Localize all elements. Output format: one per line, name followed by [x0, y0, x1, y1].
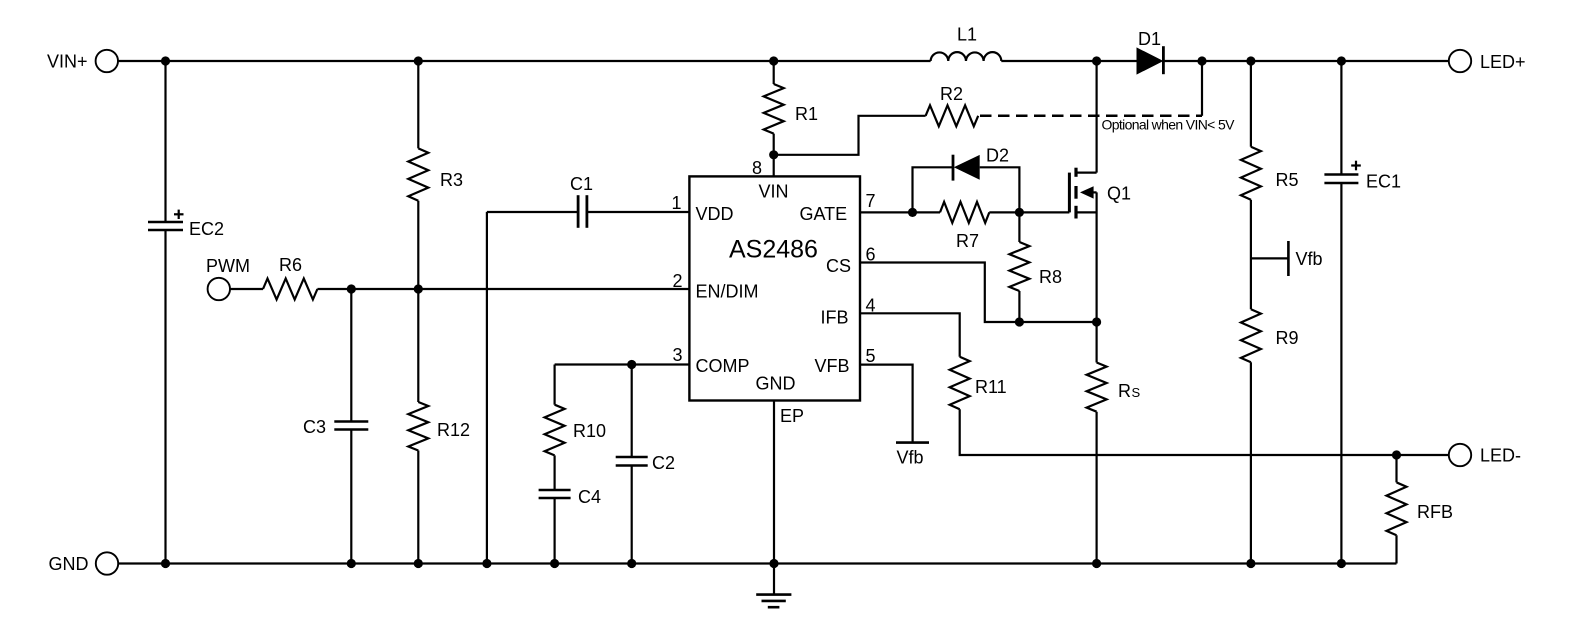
junction R1 top at VIN+ rail — [769, 56, 778, 65]
transistor Q1 — [1095, 61, 1097, 173]
wire IFB pin 4 — [859, 313, 959, 356]
resistor R6 — [263, 279, 317, 300]
wire Rs upper lead — [1095, 322, 1097, 363]
wire RFB lower lead — [1395, 535, 1397, 563]
svg-text:C3: C3 — [303, 417, 326, 437]
resistor R12 — [408, 402, 428, 451]
junction R5 top at LED+ rail — [1246, 56, 1255, 65]
svg-text:Optional when VIN< 5V: Optional when VIN< 5V — [1102, 117, 1236, 133]
terminal LED- — [1449, 444, 1471, 466]
wire EC2 lower lead — [164, 230, 166, 564]
svg-text:Q1: Q1 — [1107, 184, 1131, 204]
svg-text:RFB: RFB — [1417, 502, 1453, 522]
svg-text:R11: R11 — [975, 377, 1007, 397]
svg-text:L1: L1 — [957, 25, 977, 45]
wire C1 to VDD pin 1 — [587, 211, 690, 213]
resistor R10 — [545, 405, 565, 456]
resistor R3 — [408, 148, 428, 200]
wire C3 upper lead — [350, 289, 352, 422]
wire C1 left lead — [487, 211, 578, 213]
junction D2 cathode R8 on GATE net — [1015, 208, 1024, 217]
wire R5 to R9 — [1250, 200, 1252, 310]
diode D2 loop wire — [913, 167, 1020, 212]
junction Rs bottom at GND rail — [1092, 559, 1101, 568]
wire C2 upper lead — [631, 365, 633, 458]
svg-text:C2: C2 — [652, 453, 675, 473]
diode D2 — [954, 155, 980, 180]
wire C4 lower lead — [553, 498, 555, 564]
svg-text:AS2486: AS2486 — [729, 236, 818, 264]
junction C3 tap on EN/DIM net — [347, 284, 356, 293]
svg-text:R: R — [1118, 381, 1131, 401]
junction Q1 source on CS net — [1092, 317, 1101, 326]
svg-text:VDD: VDD — [696, 204, 734, 224]
svg-text:EC1: EC1 — [1366, 172, 1401, 192]
wire R10 to C4 — [553, 455, 555, 490]
wire COMP pin 3 — [555, 363, 690, 365]
junction R1 bottom pin 8 node — [769, 150, 778, 159]
wire VFB pin 5 — [859, 365, 912, 443]
wire Rs lower lead — [1095, 412, 1097, 564]
resistor R7 — [940, 202, 989, 223]
wire R1 upper lead — [773, 61, 775, 84]
junction R3 top at VIN+ rail — [414, 56, 423, 65]
resistor R1 — [764, 84, 784, 134]
wire R6 to EN/DIM pin 2 — [317, 288, 689, 290]
resistor R5 — [1241, 147, 1261, 200]
wire EC1 lower lead — [1340, 183, 1342, 564]
svg-text:R7: R7 — [956, 231, 979, 251]
junction R3-R12 tap on EN/DIM net — [414, 284, 423, 293]
svg-text:3: 3 — [673, 345, 683, 365]
svg-text:LED-: LED- — [1480, 446, 1521, 466]
svg-text:LED+: LED+ — [1480, 52, 1526, 72]
svg-text:5: 5 — [866, 346, 876, 366]
IC U1 AS2486 body — [689, 176, 860, 400]
svg-text:R8: R8 — [1039, 267, 1062, 287]
wire pin8 to R2 — [774, 116, 926, 155]
resistor R11 — [950, 357, 970, 410]
junction C3 bottom at GND rail — [347, 559, 356, 568]
junction R8 bottom on CS net — [1015, 317, 1024, 326]
junction C2 tap on COMP net — [627, 360, 636, 369]
svg-text:R3: R3 — [440, 170, 463, 190]
wire R10 upper lead — [553, 365, 555, 405]
capacitor C1 — [577, 195, 580, 228]
svg-text:1: 1 — [672, 193, 682, 213]
capacitor C2 — [616, 456, 648, 459]
svg-text:CS: CS — [826, 256, 851, 276]
terminal LED+ — [1449, 50, 1471, 72]
svg-text:8: 8 — [752, 158, 762, 178]
wire CS pin 6 — [859, 263, 1096, 323]
wire dashed optional link — [980, 115, 1202, 118]
junction EC1 bottom at GND rail — [1337, 559, 1346, 568]
svg-text:R6: R6 — [279, 255, 302, 275]
svg-text:VIN: VIN — [759, 182, 789, 202]
wire R3 upper lead — [417, 61, 419, 148]
diode D1 — [1137, 47, 1164, 74]
svg-text:VFB: VFB — [815, 356, 850, 376]
wire EC2 upper lead — [164, 61, 166, 222]
svg-text:VIN+: VIN+ — [47, 52, 88, 72]
wire R8 lower lead — [1018, 291, 1020, 322]
junction EC1 top at LED+ rail — [1337, 56, 1346, 65]
svg-text:D1: D1 — [1138, 29, 1161, 49]
junction optional-link at D1 cathode — [1197, 56, 1206, 65]
svg-text:R1: R1 — [795, 104, 818, 124]
svg-text:EC2: EC2 — [189, 219, 224, 239]
wire PWM to R6 — [230, 288, 263, 290]
junction D2 anode on GATE net — [908, 208, 917, 217]
terminal VIN+ — [96, 50, 118, 72]
svg-text:R9: R9 — [1276, 328, 1299, 348]
wire top rail VIN+ to L1 — [118, 60, 931, 62]
resistor RFB — [1387, 482, 1407, 535]
pin EP stub — [773, 401, 775, 564]
wire R1 to pin 8 — [773, 134, 775, 177]
wire GATE pin 7 — [859, 211, 940, 213]
svg-text:R5: R5 — [1276, 170, 1299, 190]
junction R9 bottom at GND rail — [1246, 559, 1255, 568]
wire R12 lower lead — [417, 451, 419, 564]
wire C1 left vertical — [486, 212, 488, 564]
svg-text:R10: R10 — [573, 421, 606, 441]
inductor L1 — [931, 52, 1002, 61]
wire C2 lower lead — [631, 466, 633, 564]
svg-text:Vfb: Vfb — [1296, 249, 1323, 269]
svg-text:D2: D2 — [986, 146, 1009, 166]
ground — [773, 564, 775, 595]
wire R9 lower lead — [1250, 362, 1252, 563]
wire RFB upper lead — [1395, 455, 1397, 482]
svg-text:GND: GND — [49, 554, 89, 574]
svg-text:PWM: PWM — [206, 256, 250, 276]
wire bottom rail — [118, 562, 1396, 564]
svg-text:R12: R12 — [437, 420, 470, 440]
wire R5 upper lead — [1250, 61, 1252, 147]
wire top rail D1 to LED+ — [1163, 60, 1448, 62]
junction C1 branch at GND rail — [482, 559, 491, 568]
terminal Vfb tap at R5-R9 divider — [1251, 257, 1289, 259]
wire R11 to LED- — [960, 409, 1449, 455]
wire EC1 upper lead — [1340, 61, 1342, 175]
svg-text:EP: EP — [780, 406, 804, 426]
svg-text:R2: R2 — [940, 84, 963, 104]
capacitor EC2 — [148, 221, 183, 224]
capacitor C3 — [334, 420, 368, 423]
svg-text:EN/DIM: EN/DIM — [696, 282, 759, 302]
junction Q1 drain at rail — [1092, 56, 1101, 65]
resistor Rs — [1087, 363, 1107, 412]
svg-text:GND: GND — [756, 374, 796, 394]
wire R3 to R12 — [417, 201, 419, 402]
resistor R8 — [1009, 242, 1029, 291]
svg-text:C4: C4 — [578, 487, 601, 507]
junction RFB top on LED- net — [1392, 450, 1401, 459]
svg-text:IFB: IFB — [821, 308, 849, 328]
junction EC2 bottom at GND rail — [161, 559, 170, 568]
junction EC2 top at VIN+ rail — [161, 56, 170, 65]
svg-text:C1: C1 — [570, 174, 593, 194]
wire top rail L1 to D1 — [1001, 60, 1136, 62]
terminal GND — [96, 552, 118, 574]
svg-text:Vfb: Vfb — [897, 448, 924, 468]
svg-text:2: 2 — [673, 271, 683, 291]
resistor R8 upper lead — [1018, 212, 1020, 242]
svg-text:GATE: GATE — [800, 204, 848, 224]
wire C3 lower lead — [350, 430, 352, 564]
junction C2 bottom at GND rail — [627, 559, 636, 568]
junction R12 bottom at GND rail — [414, 559, 423, 568]
svg-text:7: 7 — [866, 191, 876, 211]
terminal PWM — [208, 278, 230, 300]
junction EP at GND rail — [769, 559, 778, 568]
resistor R9 — [1241, 309, 1261, 362]
svg-text:S: S — [1132, 385, 1141, 400]
capacitor C4 — [539, 489, 571, 492]
capacitor EC1 — [1324, 173, 1358, 176]
resistor R2 — [926, 105, 979, 126]
terminal Vfb tap below VFB pin — [896, 441, 929, 444]
svg-text:COMP: COMP — [696, 356, 750, 376]
junction C4 bottom at GND rail — [550, 559, 559, 568]
